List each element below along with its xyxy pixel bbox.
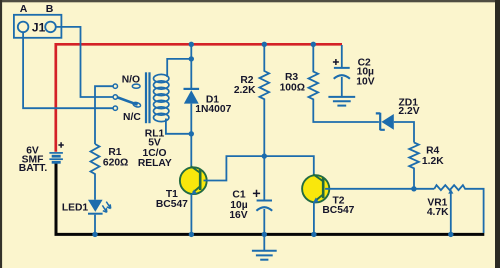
wire T2 base to R4/VR1 node	[325, 188, 434, 190]
resistor R1 620ohm	[91, 144, 100, 200]
svg-text:1N4007: 1N4007	[195, 104, 231, 115]
svg-text:R1: R1	[108, 147, 121, 158]
relay coil RL1	[145, 72, 169, 123]
wire N/O contact to R1	[95, 86, 113, 144]
svg-text:2.2K: 2.2K	[234, 85, 256, 96]
svg-text:B: B	[46, 3, 54, 15]
svg-text:2.2V: 2.2V	[398, 106, 419, 117]
capacitor C1 10u 16V	[263, 156, 265, 200]
node junction dots	[92, 42, 453, 238]
wire T1 emitter to ground	[190, 194, 192, 233]
battery 6V SMF	[49, 153, 63, 162]
svg-text:N/C: N/C	[123, 112, 141, 123]
potentiometer VR1 4.7K	[434, 185, 483, 233]
connector J1	[14, 15, 62, 38]
svg-text:BATT.: BATT.	[19, 163, 48, 174]
wire J1-A to N/C contact	[23, 32, 113, 108]
wire ground rail	[56, 163, 484, 234]
resistor R2 2.2K	[259, 44, 269, 156]
svg-text:16V: 16V	[229, 210, 247, 221]
wire T2 emitter to ground	[313, 202, 315, 233]
svg-text:BC547: BC547	[322, 205, 354, 216]
wire J1-B to common contact	[56, 27, 113, 97]
relay contact arm	[118, 97, 138, 104]
svg-text:100Ω: 100Ω	[280, 82, 305, 93]
ground (C1)	[263, 236, 265, 250]
zener ZD1 2.2V	[376, 113, 385, 130]
resistor R3 100ohm	[308, 44, 378, 122]
wire relay coil top to D1	[167, 59, 191, 77]
svg-text:10V: 10V	[356, 77, 374, 88]
svg-text:LED1: LED1	[62, 203, 89, 214]
capacitor C2 10u 10V	[341, 45, 343, 67]
transistor T1 BC547	[180, 166, 207, 195]
transistor T2 BC547	[302, 174, 329, 203]
resistor R4 1.2K	[409, 143, 419, 189]
svg-text:RELAY: RELAY	[138, 158, 172, 169]
svg-text:BC547: BC547	[156, 199, 188, 210]
diode D1 1N4007	[190, 44, 192, 167]
svg-text:4.7K: 4.7K	[427, 207, 449, 218]
relay contacts N/O N/C	[113, 84, 141, 110]
svg-text:N/O: N/O	[122, 74, 140, 85]
svg-text:R4: R4	[426, 146, 439, 157]
LED1	[88, 200, 103, 212]
svg-text:620Ω: 620Ω	[103, 157, 128, 168]
wire +V red rail	[56, 44, 342, 152]
svg-text:1.2K: 1.2K	[422, 156, 444, 167]
svg-text:J1: J1	[32, 20, 46, 34]
wire T1 base / C1 / T2 collector node	[204, 156, 314, 180]
wire relay coil bottom to D1 anode	[166, 119, 191, 134]
svg-text:A: A	[20, 3, 28, 15]
ground (C2)	[328, 97, 355, 106]
